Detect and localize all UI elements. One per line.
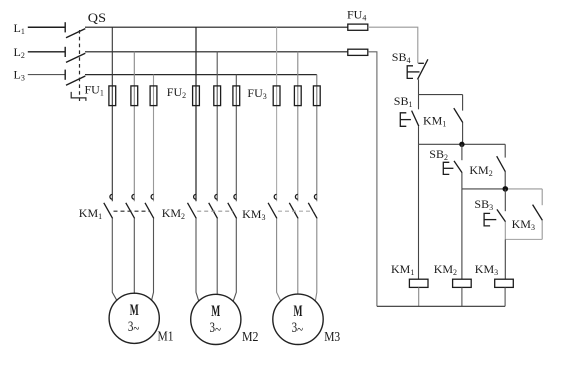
contactor KM1 main pole 3 (145, 194, 154, 218)
motor M1 (109, 293, 159, 343)
switch QS linkage (71, 30, 86, 101)
contactor KM2 main pole 1 (188, 194, 197, 218)
wire L2 bus (85, 51, 348, 53)
switch QS pole 1 (65, 22, 85, 38)
wire branch2 phase B (216, 52, 218, 202)
wire SB3 to rail 4 (504, 222, 506, 240)
svg-text:3~: 3~ (128, 319, 140, 337)
wire KM3 to motor M3 (277, 218, 317, 301)
wire branch2 phase C (235, 75, 237, 202)
node A branch line (419, 94, 463, 96)
switch QS pole 2 (65, 47, 85, 63)
contactor KM3 main pole 1 (268, 194, 277, 218)
wire branch1 phase A (111, 27, 113, 201)
motor M3 (273, 294, 323, 344)
fuse FU1 pole 1 (109, 86, 116, 106)
wire KM1 coil tail (418, 287, 420, 306)
pushbutton SB1 (400, 95, 419, 127)
contact KM2 aux (497, 144, 506, 189)
svg-text:M: M (294, 303, 303, 320)
contactor KM1 main pole 1 (104, 194, 113, 218)
svg-text:QS: QS (88, 10, 106, 25)
svg-text:3~: 3~ (292, 320, 304, 338)
svg-text:M1: M1 (158, 329, 174, 344)
wire KM1 to motor M1 (112, 218, 153, 300)
contactor KM2 main pole 2 (209, 194, 218, 218)
wire branch3 phase C (316, 75, 318, 202)
fuse FU1 pole 2 (131, 86, 138, 106)
wire L2 to control return (368, 52, 377, 306)
coil KM1 (409, 279, 428, 287)
contactor KM3 linkage (278, 210, 313, 212)
wire branch2 phase A (195, 27, 197, 201)
wire branch3 phase A (276, 27, 278, 201)
rail 3 line (462, 188, 505, 190)
contact KM1 aux (454, 95, 463, 145)
pushbutton SB3 (484, 189, 505, 226)
fuse FU2 pole 2 (214, 86, 221, 106)
svg-text:M2: M2 (242, 329, 259, 344)
wire L3 lead (28, 74, 65, 76)
pushbutton SB2 (443, 144, 462, 174)
wire KM3 coil tail (504, 287, 506, 306)
contactor KM2 main pole 3 (228, 194, 237, 218)
wire branch1 phase B (133, 52, 135, 202)
contactor KM3 main pole 2 (289, 194, 298, 218)
wire L2 lead (28, 51, 65, 53)
wire branch3 phase B (297, 52, 299, 202)
svg-text:M: M (211, 303, 220, 320)
contactor KM1 linkage (114, 210, 151, 212)
fuse FU1 pole 3 (150, 86, 157, 106)
wire L1 to control (368, 27, 418, 63)
svg-text:3~: 3~ (209, 320, 221, 338)
wire KM2 coil feed (461, 189, 463, 279)
wire KM1 coil feed (418, 144, 420, 279)
wire KM2 coil tail (461, 287, 463, 306)
fuse FU3 pole 3 (313, 86, 320, 106)
switch QS pole 3 (65, 70, 85, 86)
fuse FU2 pole 3 (233, 86, 240, 106)
pushbutton SB4 (407, 59, 428, 79)
rail 4 line (505, 238, 542, 240)
wire KM2 to motor M2 (196, 218, 236, 301)
contactor KM3 main pole 3 (308, 194, 317, 218)
svg-text:M: M (130, 302, 139, 319)
wire KM3 coil feed (504, 239, 506, 279)
contact KM3 aux (533, 189, 543, 240)
motor M2 (191, 294, 241, 344)
contactor KM1 main pole 2 (126, 194, 135, 218)
fuse FU2 pole 1 (193, 86, 200, 106)
wire branch1 phase C (153, 75, 155, 202)
fuse FU4 upper (348, 24, 368, 30)
wire L3 bus (85, 74, 317, 76)
wire SB1 to rail 2 (418, 126, 420, 144)
fuse FU3 pole 1 (273, 86, 280, 106)
wire L1 bus (85, 26, 348, 28)
wire control bottom bus (377, 305, 505, 307)
junction node C (503, 186, 509, 192)
wire L1 lead (28, 26, 65, 28)
fuse FU3 pole 2 (294, 86, 301, 106)
wire SB2 to rail 3 (461, 173, 463, 189)
svg-text:M3: M3 (324, 329, 340, 344)
rail 2 line (419, 143, 506, 145)
coil KM3 (495, 279, 514, 287)
fuse FU4 lower (348, 49, 368, 55)
contactor KM2 linkage (197, 210, 233, 212)
rail 3 line right (505, 188, 542, 190)
wire SB4 to node A (418, 79, 420, 94)
coil KM2 (453, 279, 472, 287)
junction node B (459, 142, 464, 147)
